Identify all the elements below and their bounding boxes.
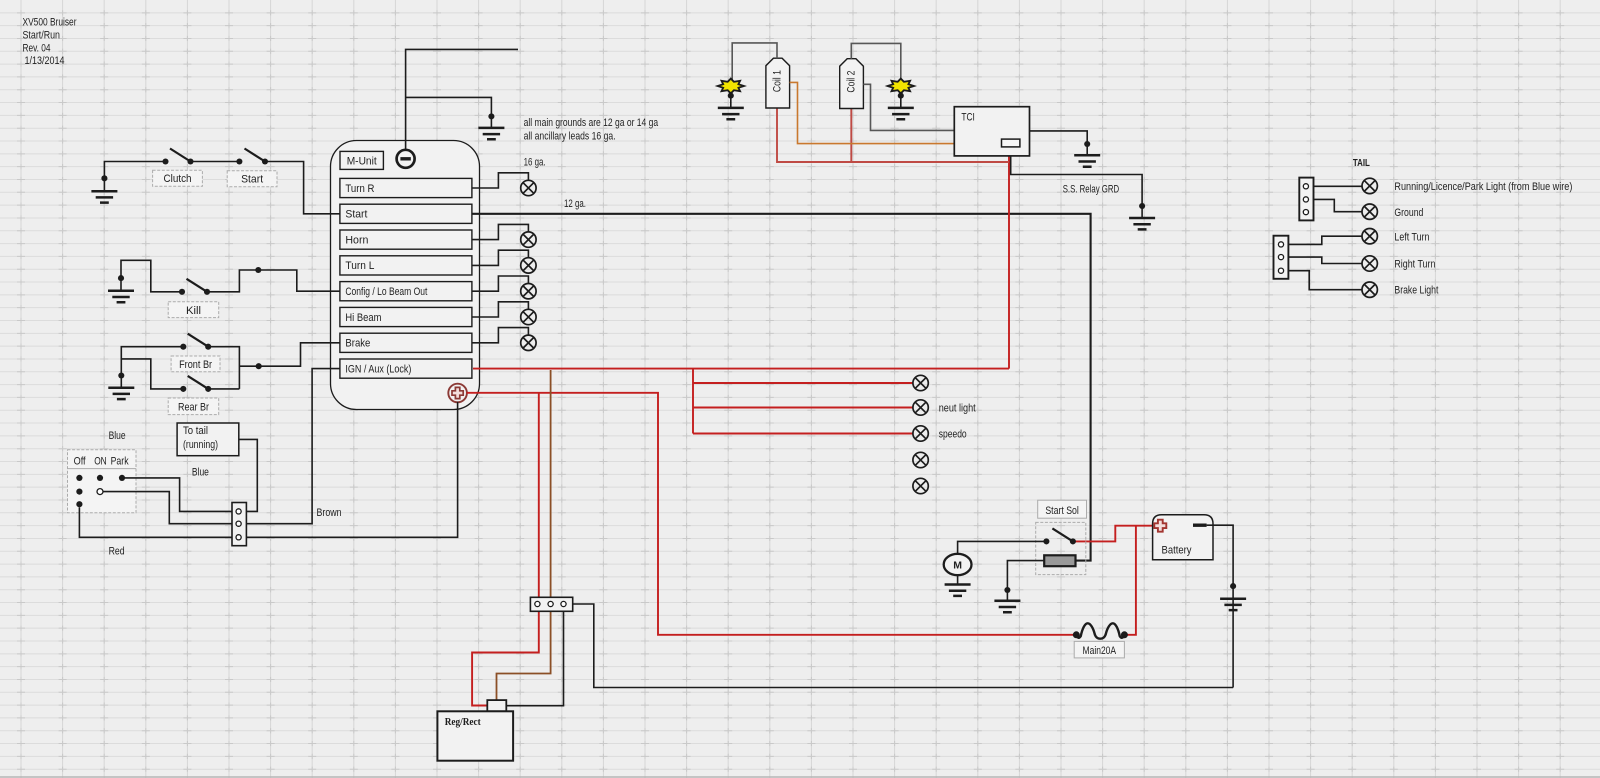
svg-text:IGN / Aux (Lock): IGN / Aux (Lock) xyxy=(345,363,411,375)
svg-text:Config / Lo Beam Out: Config / Lo Beam Out xyxy=(345,286,427,298)
svg-text:Brake Light: Brake Light xyxy=(1394,285,1438,297)
svg-text:Main20A: Main20A xyxy=(1083,645,1117,657)
svg-text:Start: Start xyxy=(241,174,263,186)
svg-text:Blue: Blue xyxy=(109,430,126,442)
svg-text:all main grounds are 12 ga or: all main grounds are 12 ga or 14 ga xyxy=(524,117,659,129)
svg-text:Turn R: Turn R xyxy=(345,183,374,195)
svg-text:neut light: neut light xyxy=(939,403,976,415)
svg-text:Horn: Horn xyxy=(345,234,368,246)
svg-text:Left Turn: Left Turn xyxy=(1394,232,1429,244)
svg-text:Brake: Brake xyxy=(345,338,370,350)
svg-text:Reg/Rect: Reg/Rect xyxy=(445,717,481,728)
svg-text:Coil 2: Coil 2 xyxy=(846,71,858,93)
svg-text:XV500 Bruiser: XV500 Bruiser xyxy=(23,17,77,29)
svg-text:16 ga.: 16 ga. xyxy=(524,157,546,169)
svg-text:Rear Br: Rear Br xyxy=(178,402,209,414)
svg-text:Park: Park xyxy=(111,456,130,468)
svg-text:TCI: TCI xyxy=(961,111,975,123)
svg-text:Start Sol: Start Sol xyxy=(1045,505,1079,517)
svg-text:M: M xyxy=(953,560,962,572)
svg-text:To tail: To tail xyxy=(183,425,208,437)
svg-text:12 ga.: 12 ga. xyxy=(564,198,586,210)
svg-text:Coil 1: Coil 1 xyxy=(772,70,784,92)
svg-text:Turn L: Turn L xyxy=(345,260,374,272)
svg-text:all ancillary leads 16 ga.: all ancillary leads 16 ga. xyxy=(524,131,616,143)
svg-text:Kill: Kill xyxy=(186,305,201,317)
svg-text:Off: Off xyxy=(74,456,86,468)
svg-text:Right Turn: Right Turn xyxy=(1394,259,1435,271)
svg-text:Start/Run: Start/Run xyxy=(23,30,61,42)
svg-text:S.S. Relay GRD: S.S. Relay GRD xyxy=(1063,184,1120,196)
svg-text:Clutch: Clutch xyxy=(164,173,192,185)
svg-text:Red: Red xyxy=(109,546,125,558)
svg-text:Running/Licence/Park Light (fr: Running/Licence/Park Light (from Blue wi… xyxy=(1394,181,1572,193)
svg-text:(running): (running) xyxy=(183,439,218,451)
svg-text:Ground: Ground xyxy=(1394,207,1423,219)
svg-text:Rev. 04: Rev. 04 xyxy=(23,42,51,54)
svg-text:TAIL: TAIL xyxy=(1353,158,1370,169)
svg-text:M-Unit: M-Unit xyxy=(347,156,377,168)
svg-text:Front Br: Front Br xyxy=(179,359,212,371)
svg-text:1/13/2014: 1/13/2014 xyxy=(25,55,65,67)
svg-text:Blue: Blue xyxy=(192,466,209,478)
svg-text:Battery: Battery xyxy=(1162,545,1193,557)
svg-text:Brown: Brown xyxy=(317,507,342,519)
svg-text:Start: Start xyxy=(345,209,367,221)
svg-text:speedo: speedo xyxy=(939,429,967,441)
svg-text:Hi Beam: Hi Beam xyxy=(345,312,381,324)
svg-text:ON: ON xyxy=(94,456,107,468)
